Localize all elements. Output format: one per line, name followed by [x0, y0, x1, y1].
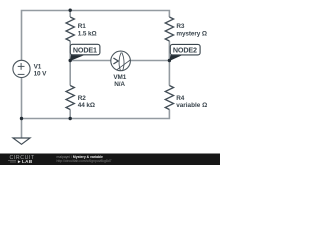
- svg-text:V1: V1: [34, 63, 42, 70]
- svg-text:NODE1: NODE1: [73, 45, 97, 54]
- svg-text:NODE2: NODE2: [173, 45, 197, 54]
- svg-text:R4: R4: [176, 95, 185, 102]
- svg-text:44 kΩ: 44 kΩ: [78, 102, 95, 109]
- svg-text:10 V: 10 V: [34, 71, 48, 78]
- svg-text:R1: R1: [78, 23, 87, 30]
- svg-text:variable Ω: variable Ω: [176, 102, 207, 109]
- svg-text:►LAB: ►LAB: [17, 159, 33, 164]
- svg-text:mystery Ω: mystery Ω: [176, 31, 207, 38]
- svg-text:R2: R2: [78, 95, 87, 102]
- svg-text:http://circuitlab.com/c/6gnpuv: http://circuitlab.com/c/6gnpuv8kg8d7: [57, 159, 112, 163]
- svg-text:N/A: N/A: [114, 81, 125, 88]
- svg-text:1.5 kΩ: 1.5 kΩ: [78, 31, 97, 38]
- svg-text:R3: R3: [176, 23, 185, 30]
